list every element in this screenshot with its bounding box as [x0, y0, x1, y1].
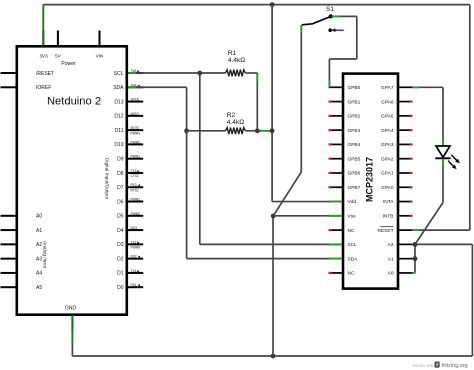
svg-text:INTB: INTB: [383, 214, 394, 220]
svg-text:SPCK: SPCK: [131, 98, 141, 102]
mcp pin A2 stub: [398, 243, 412, 245]
netduino pin D2 stub: [128, 258, 143, 260]
svg-text:PWM2: PWM2: [131, 140, 141, 144]
svg-text:SDA: SDA: [113, 85, 124, 91]
svg-text:GPA6: GPA6: [381, 99, 394, 105]
svg-text:D9: D9: [117, 156, 124, 162]
netduino pin D1 stub: [128, 272, 143, 274]
mcp pin GPA3 stub: [398, 143, 412, 145]
svg-text:GPA7: GPA7: [381, 85, 394, 91]
node ground/Vss junction: [271, 354, 276, 359]
svg-text:Vss: Vss: [348, 214, 357, 220]
wire GPB0 tick: [328, 81, 330, 87]
mcp pin NC stub: [329, 229, 343, 231]
mcp pin GPB4 open tick: [329, 143, 332, 145]
svg-text:GPA0: GPA0: [381, 185, 394, 191]
netduino pin D11 stub: [128, 129, 143, 131]
wire A0 connect: [413, 272, 416, 274]
svg-text:A0: A0: [388, 271, 394, 277]
netduino pin IOREF stub: [1, 86, 16, 88]
netduino pin 3V3 stub: [42, 31, 44, 47]
svg-text:PWM1: PWM1: [131, 155, 141, 159]
svg-text:GPA2: GPA2: [381, 156, 394, 162]
switch S1 left tick: [300, 26, 302, 33]
wire SCL tick: [129, 72, 137, 74]
wire Vss riser: [272, 216, 274, 356]
svg-text:GPA3: GPA3: [381, 142, 394, 148]
mcp pin GPA1 stub: [398, 172, 412, 174]
mcp pin GPB7 open tick: [329, 186, 332, 188]
svg-text:GPA5: GPA5: [381, 114, 394, 120]
mcp pin GPA0 stub: [398, 186, 412, 188]
svg-text:5V: 5V: [55, 54, 62, 59]
wire A chain: [414, 244, 416, 273]
mcp pin GPB6 open tick: [329, 172, 332, 174]
node SCL junction: [197, 71, 202, 76]
wire GND drop (green): [71, 315, 73, 344]
wire R1 drop tick: [256, 74, 258, 81]
netduino pin D0 stub: [128, 286, 143, 288]
svg-text:fritzing.org: fritzing.org: [442, 363, 468, 369]
mcp pin NC stub: [329, 272, 343, 274]
wire A0 tick: [413, 272, 416, 274]
svg-text:/RESET: /RESET: [36, 71, 54, 77]
svg-text:D4: D4: [117, 228, 124, 234]
svg-text:A4: A4: [36, 271, 42, 277]
wire SDA from netduino: [128, 86, 187, 88]
mcp pin GPB3 stub: [329, 129, 343, 131]
svg-text:GPB6: GPB6: [348, 171, 361, 177]
svg-text:A3: A3: [36, 256, 42, 262]
mcp pin GPA7 stub: [398, 86, 412, 88]
wire Vdd feed: [272, 201, 329, 203]
svg-text:Vdd: Vdd: [348, 199, 357, 205]
mcp pin GPA5 stub: [398, 115, 412, 117]
wire SCL from netduino: [128, 72, 226, 74]
wire 3V3 riser (green): [42, 5, 44, 46]
mcp pin GPB3 open tick: [329, 129, 332, 131]
wire LED cathode tick: [442, 159, 444, 166]
svg-text:RTS2: RTS2: [131, 188, 139, 192]
netduino pin A2 stub: [1, 243, 16, 245]
node R2/Vdd junction: [270, 128, 275, 133]
netduino pin SDA stub: [128, 86, 143, 88]
netduino pin D8 stub: [128, 172, 143, 174]
node Vss junction: [271, 214, 276, 219]
watermark fritzing logo: [435, 362, 440, 368]
svg-text:CTS2: CTS2: [131, 174, 139, 178]
mcp pin GPB5 open tick: [329, 158, 332, 160]
netduino pin D9 stub: [128, 158, 143, 160]
svg-text:Digital Input/Output: Digital Input/Output: [104, 158, 110, 200]
netduino pin D7 stub: [128, 186, 143, 188]
netduino pin A1 stub: [1, 229, 16, 231]
mcp pin INTA stub: [398, 201, 412, 203]
wire ground riser right: [471, 244, 473, 356]
wire SCL drop: [199, 73, 201, 244]
mcp label RESET overline: [380, 226, 393, 228]
svg-text:MISO: MISO: [131, 112, 140, 116]
svg-text:D10: D10: [114, 142, 123, 148]
svg-text:D1: D1: [117, 271, 124, 277]
netduino pin SCL stub: [128, 72, 143, 74]
mcp pin GPA6 stub: [398, 101, 412, 103]
svg-text:Analog Input: Analog Input: [42, 241, 48, 269]
node SDA/R2 junction: [184, 128, 189, 133]
wire GPA7 feed: [413, 86, 444, 88]
wire R2 left lead: [187, 130, 226, 132]
wire switch to corner: [331, 15, 357, 17]
mcp pin GPB2 stub: [329, 115, 343, 117]
wire R1 right lead: [245, 72, 257, 74]
mcp pin GPA4 open tick: [409, 129, 412, 131]
mcp pin INTB open tick: [409, 215, 412, 217]
switch S1 contact top: [329, 14, 333, 18]
mcp pin GPB1 open tick: [329, 100, 332, 102]
svg-text:GPB0: GPB0: [348, 85, 361, 91]
wire GPB0 drop: [328, 59, 330, 87]
netduino pin GND stub: [71, 315, 73, 331]
mcp pin NC open tick: [329, 229, 332, 231]
svg-text:A5: A5: [36, 285, 42, 291]
svg-text:A0: A0: [36, 214, 42, 220]
mcp pin GPB1 stub: [329, 101, 343, 103]
mcp pin A1 stub: [398, 258, 412, 260]
svg-text:GPB5: GPB5: [348, 156, 361, 162]
wire LED anode tick: [442, 139, 444, 146]
mcp pin GPA4 stub: [398, 129, 412, 131]
svg-text:Netduino 2: Netduino 2: [47, 96, 101, 108]
svg-text:TX3 ▶: TX3 ▶: [131, 169, 141, 173]
node A2 junction: [413, 242, 418, 247]
svg-text:A2: A2: [388, 242, 394, 248]
svg-text:RX3 ◀: RX3 ◀: [131, 183, 141, 187]
led LED1 triangle: [436, 146, 450, 157]
mcp pin GPB5 stub: [329, 158, 343, 160]
svg-text:D5: D5: [117, 214, 124, 220]
netduino pin 5V stub: [57, 31, 59, 47]
svg-text:PWM6: PWM6: [131, 246, 141, 250]
resistor R2: [226, 128, 246, 135]
svg-text:GPA1: GPA1: [381, 171, 394, 177]
svg-text:PWM1: PWM1: [131, 198, 141, 202]
switch S1 actuator arrow: [331, 28, 344, 32]
mcp pin GPA6 open tick: [409, 100, 412, 102]
wire SDA mcp tick: [329, 258, 342, 260]
svg-text:SDA: SDA: [348, 256, 359, 262]
wire top 3V3 rail: [43, 4, 470, 6]
wire LED diagonal to A2: [415, 203, 443, 245]
netduino pin D6 stub: [128, 201, 143, 203]
svg-text:Power: Power: [61, 61, 76, 67]
svg-text:SCL: SCL: [348, 242, 358, 248]
netduino pin /RESET stub: [1, 72, 16, 74]
netduino U1 board outline: [17, 46, 127, 314]
wire SDA feed to mcp: [187, 258, 329, 260]
mcp pin INTA open tick: [409, 200, 412, 202]
svg-text:D13: D13: [114, 99, 123, 105]
mcp pin INTB stub: [398, 215, 412, 217]
switch S1 lever: [302, 16, 331, 24]
mcp pin RESET stub: [398, 229, 412, 231]
netduino pin A0 stub: [1, 215, 16, 217]
wire R2 right tick: [261, 130, 269, 132]
mcp pin GPA1 open tick: [409, 172, 412, 174]
netduino pin A5 stub: [1, 286, 16, 288]
svg-text:GPA4: GPA4: [381, 128, 394, 134]
svg-text:TX2 ▶: TX2 ▶: [131, 240, 141, 244]
svg-text:TX1 ▶: TX1 ▶: [131, 269, 141, 273]
mcp pin Vss stub: [329, 215, 343, 217]
netduino pin D3 stub: [128, 243, 143, 245]
wire Vss feed: [273, 215, 329, 217]
netduino pin A4 stub: [1, 272, 16, 274]
node 3V3/Vdd junction: [270, 2, 275, 7]
wire switch to GPB0 column: [329, 58, 356, 60]
switch S1 left wire drop: [300, 25, 302, 172]
wire A2 feed: [415, 243, 472, 245]
svg-text:ND3: ND3: [131, 226, 138, 230]
svg-text:RX1 ◀: RX1 ◀: [131, 283, 141, 287]
mcp pin GPB6 stub: [329, 172, 343, 174]
wire bottom ground rail: [72, 355, 472, 357]
mcp pin GPB7 stub: [329, 186, 343, 188]
mcp pin GPB0 stub: [329, 86, 343, 88]
svg-text:GPB7: GPB7: [348, 185, 361, 191]
wire R2 right lead: [245, 130, 272, 132]
svg-text:GPB4: GPB4: [348, 142, 361, 148]
wire switch right tick: [333, 15, 340, 17]
netduino pin A3 stub: [1, 258, 16, 260]
svg-text:A1: A1: [36, 228, 42, 234]
svg-text:VIN: VIN: [96, 54, 104, 59]
svg-text:D6: D6: [117, 199, 124, 205]
netduino pin D5 stub: [128, 215, 143, 217]
wire Vdd tick: [329, 201, 342, 203]
svg-text:MCP23017: MCP23017: [365, 157, 375, 202]
node A1 junction: [413, 256, 418, 261]
netduino pin VIN stub: [99, 31, 101, 47]
wire R1 drop: [256, 73, 258, 131]
svg-text:S1: S1: [326, 6, 334, 13]
mcp pin GPA0 open tick: [409, 186, 412, 188]
wire A1 tick: [413, 258, 414, 260]
mcp pin SDA stub: [329, 258, 343, 260]
svg-text:GPB3: GPB3: [348, 128, 361, 134]
wire switch diagonal to Vss: [273, 172, 301, 216]
led LED1 emission arrow 1: [451, 155, 460, 164]
mcp pin GPA2 stub: [398, 158, 412, 160]
wire GPA7 tick: [413, 86, 420, 88]
wire RESET riser: [469, 5, 471, 231]
svg-text:A2: A2: [36, 242, 42, 248]
svg-text:D0: D0: [117, 285, 124, 291]
wire SCL feed to mcp: [200, 243, 329, 245]
wire SCL mcp tick: [329, 243, 342, 245]
wire LED anode drop: [442, 87, 444, 146]
wire SDA drop: [186, 87, 188, 258]
netduino pin D10 stub: [128, 143, 143, 145]
svg-text:GPB2: GPB2: [348, 114, 361, 120]
svg-text:GND: GND: [65, 306, 77, 312]
svg-text:SCL: SCL: [114, 71, 124, 77]
wire RESET feed: [413, 229, 470, 231]
svg-text:GPB1: GPB1: [348, 99, 361, 105]
svg-text:D8: D8: [117, 171, 124, 177]
wire Vdd drop: [271, 5, 273, 202]
svg-text:PWM3: PWM3: [131, 131, 141, 135]
svg-text:RESET: RESET: [378, 228, 394, 234]
svg-text:Made with: Made with: [413, 363, 435, 369]
svg-text:D3: D3: [117, 242, 124, 248]
netduino pin D4 stub: [128, 229, 143, 231]
mcp pin GPA2 open tick: [409, 158, 412, 160]
svg-text:3V3: 3V3: [40, 54, 49, 59]
mcp pin GPA3 open tick: [409, 143, 412, 145]
mcp pin A0 stub: [398, 272, 412, 274]
svg-text:NC: NC: [348, 228, 355, 234]
svg-text:4.4kΩ: 4.4kΩ: [228, 57, 245, 64]
wire switch corner drop: [356, 16, 358, 59]
switch S1 contact bottom: [328, 28, 332, 32]
svg-text:INTA: INTA: [383, 199, 394, 205]
svg-text:A1: A1: [388, 256, 394, 262]
svg-text:D11: D11: [115, 128, 124, 134]
wire SDA tick: [129, 86, 137, 88]
wire Vss tick: [329, 215, 342, 217]
mcp pin SCL stub: [329, 243, 343, 245]
wire RESET tick: [413, 229, 420, 231]
mcp pin NC open tick: [329, 272, 332, 274]
svg-text:MOSI: MOSI: [131, 126, 139, 130]
svg-text:RX2 ◀: RX2 ◀: [131, 255, 141, 259]
mcp pin GPA5 open tick: [409, 115, 412, 117]
svg-text:D7: D7: [117, 185, 124, 191]
svg-text:4.4kΩ: 4.4kΩ: [227, 119, 244, 126]
node R1/R2 junction: [255, 128, 260, 133]
svg-text:NC: NC: [348, 271, 355, 277]
led LED1 emission arrow 2: [448, 161, 457, 170]
mcp pin GPB4 stub: [329, 143, 343, 145]
led LED1 cathode bar: [435, 157, 450, 159]
svg-text:D2: D2: [117, 256, 124, 262]
svg-text:IOREF: IOREF: [36, 85, 51, 91]
mcp pin GPB2 open tick: [329, 115, 332, 117]
resistor R1: [226, 70, 246, 77]
wire LED cathode drop: [442, 158, 444, 202]
wire A2 tick: [413, 243, 414, 245]
svg-text:D12: D12: [114, 114, 123, 120]
netduino pin D12 stub: [128, 115, 143, 117]
mcp23017 U2 outline: [343, 74, 398, 289]
netduino pin D13 stub: [128, 101, 143, 103]
mcp pin Vdd stub: [329, 201, 343, 203]
wire GND drop lower: [71, 344, 73, 356]
svg-text:PWM0: PWM0: [131, 212, 141, 216]
